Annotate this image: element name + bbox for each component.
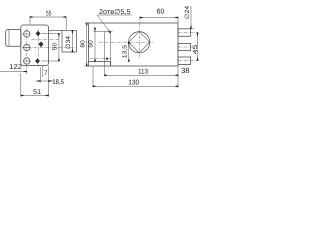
ext 55 right / flange edge [65, 17, 67, 30]
ext small hole 3 to 50 dim [41, 60, 59, 62]
centerline port 3 [178, 60, 198, 62]
small hole d1 [36, 31, 41, 36]
svg-text:51: 51 [33, 89, 41, 96]
dim d24 [190, 6, 192, 29]
tab inner edge [8, 30, 10, 46]
inscribed square [129, 32, 150, 53]
svg-text:∅34: ∅34 [65, 35, 72, 49]
left view plate [21, 25, 49, 66]
ext 113 left [104, 32, 106, 77]
svg-text:7: 7 [44, 70, 47, 77]
centerlines dash-dot [22, 18, 198, 76]
dim 113 [105, 74, 179, 76]
ext small hole 1 to 50 dim [41, 33, 59, 35]
svg-text:13,5: 13,5 [121, 44, 128, 58]
bottom-left step [89, 62, 111, 67]
svg-text:130: 130 [128, 80, 139, 87]
ext 80 bottom [85, 65, 89, 67]
ext 130 left [92, 66, 94, 87]
hole 1 bar [23, 33, 31, 35]
svg-text:122: 122 [9, 64, 22, 71]
small hole d3 [35, 58, 40, 63]
right view body [89, 23, 179, 66]
centerline lower left right view [90, 58, 112, 60]
port boss 1 [178, 29, 191, 37]
hole 2 bar [23, 47, 31, 49]
ext 18.5 left [39, 68, 41, 83]
dim 50 right view top arrow [94, 28, 96, 32]
ext 7 left [42, 66, 44, 78]
svg-text:55: 55 [46, 11, 51, 18]
svg-text:2отв∅5,5: 2отв∅5,5 [99, 9, 131, 16]
dimension texts [9, 5, 199, 96]
port boss 2 [178, 44, 191, 51]
dim 13.5 [128, 42, 130, 61]
dim 50 right view [94, 28, 96, 62]
dim 50 left view [58, 34, 60, 62]
ext d24 [191, 28, 194, 30]
dim 45 [197, 33, 199, 61]
hole 3 bar [23, 60, 31, 62]
small filled hole diamonds [35, 31, 108, 64]
dim 18.5 line [40, 80, 48, 82]
centerline axis left view [22, 47, 76, 49]
dim 60 [140, 17, 178, 19]
ext right edge down [177, 66, 179, 87]
centerline port 2 [178, 46, 194, 48]
leader underline [97, 14, 132, 16]
ext 60 right [177, 18, 179, 24]
dimension + extension lines [0, 6, 198, 97]
hole circle 3 [24, 58, 30, 64]
hole edge right [110, 32, 112, 67]
boss flange block [49, 30, 77, 52]
dim 130 [93, 85, 178, 87]
big circle [129, 32, 150, 53]
svg-text:50: 50 [52, 42, 59, 50]
hole circle 2 [24, 44, 30, 50]
dim 80 [86, 23, 88, 66]
ext 55 left [29, 17, 31, 24]
ext 51 left [20, 73, 22, 97]
svg-text:50: 50 [88, 39, 95, 47]
dim d34 [72, 30, 74, 52]
centerline small holes column [37, 30, 39, 68]
ext 80 top [85, 22, 89, 24]
svg-text:38: 38 [181, 66, 190, 75]
dim 122 [0, 71, 27, 73]
leader line [97, 15, 110, 33]
svg-text:80: 80 [79, 39, 86, 47]
ext plate right bottom [48, 66, 50, 97]
svg-text:60: 60 [157, 9, 165, 16]
centerline horizontal right view [99, 41, 154, 43]
left view tab [6, 30, 21, 47]
svg-text:113: 113 [138, 69, 148, 76]
svg-text:18,5: 18,5 [52, 79, 64, 86]
hole circle 1 [24, 31, 30, 37]
centerline horizontal mid left view [32, 39, 60, 41]
centerline holes column [26, 29, 28, 76]
dim 55 line [30, 16, 66, 18]
centerline vertical right view [138, 18, 140, 59]
svg-text:45: 45 [192, 44, 199, 55]
top recess edge [94, 31, 113, 33]
dim 51 [21, 95, 49, 97]
small hole d2 [39, 42, 44, 48]
junction diamond [106, 57, 109, 60]
port boss 3 [178, 57, 191, 65]
dim 18.5 left arrow [36, 80, 41, 82]
svg-text:∅24: ∅24 [184, 5, 191, 19]
centerline port 1 [178, 32, 198, 34]
dim 18.5 right arrow [49, 80, 54, 82]
